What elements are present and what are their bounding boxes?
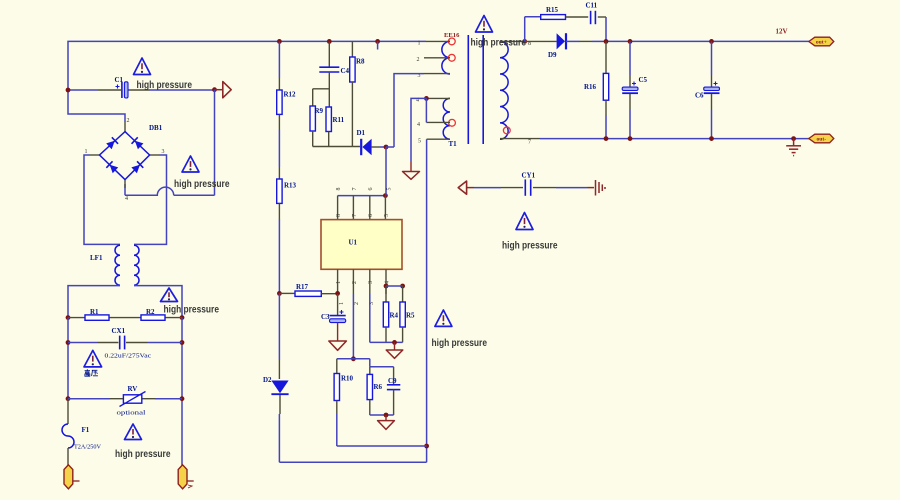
fuse F1 bbox=[67, 399, 69, 424]
wire: R13 to R17 junction bbox=[278, 203, 280, 219]
wire: bridge AC left leg to LF1 bbox=[84, 155, 120, 244]
wire: R9/R11 bottoms to D1 cathode bbox=[313, 131, 353, 147]
wire: pin 1 to C3 bbox=[337, 294, 339, 315]
svg-text:1: 1 bbox=[336, 281, 342, 284]
svg-text:optional: optional bbox=[117, 410, 146, 417]
wire: CY1 to chassis ground bbox=[533, 187, 556, 189]
junction dots on DC+ bus bbox=[277, 39, 282, 44]
resistor R12 bbox=[277, 90, 282, 114]
svg-text:high pressure: high pressure bbox=[115, 449, 171, 460]
svg-text:5: 5 bbox=[384, 214, 390, 217]
svg-text:R6: R6 bbox=[374, 383, 383, 391]
capacitor CX1 row bbox=[66, 340, 71, 345]
wire: LF1 bottom right to AC column bbox=[134, 286, 182, 318]
wire: out+ rail bbox=[606, 40, 809, 42]
wire: R12 to R13 bbox=[278, 114, 280, 130]
svg-text:6: 6 bbox=[368, 214, 374, 217]
capacitor C9 bbox=[393, 367, 395, 385]
U1 pin stubs top bbox=[337, 196, 339, 220]
warning triangle (mid lower) bbox=[435, 310, 452, 326]
svg-text:high pressure: high pressure bbox=[471, 38, 527, 49]
transformer pin 4b bbox=[426, 121, 450, 123]
capacitor C4 bbox=[328, 41, 330, 67]
wire: pin 4 to ground bbox=[411, 98, 426, 162]
resistor R2 bbox=[141, 315, 165, 320]
svg-text:C11: C11 bbox=[586, 2, 598, 10]
transformer T1 primary winding (pins 1-3) bbox=[442, 41, 450, 74]
wire: top pin rail of U1 (pins 8,7,6,5) bbox=[338, 195, 386, 197]
transformer pin 3 bbox=[424, 73, 450, 75]
transformer T1 core bbox=[467, 35, 469, 144]
svg-text:C5: C5 bbox=[639, 76, 648, 84]
svg-text:R9: R9 bbox=[315, 107, 324, 115]
transformer polarity dots bbox=[448, 38, 455, 45]
svg-text:1: 1 bbox=[418, 41, 421, 47]
wire: R4/R5 bottom rail bbox=[386, 327, 403, 342]
warning triangle (right of U1) bbox=[516, 213, 533, 230]
svg-text:5: 5 bbox=[418, 139, 421, 145]
transformer pin 8 bbox=[500, 40, 526, 42]
svg-text:8: 8 bbox=[336, 188, 342, 191]
svg-text:high pressure: high pressure bbox=[174, 179, 230, 190]
warning triangle (above transformer) bbox=[476, 16, 493, 33]
svg-text:C6: C6 bbox=[695, 92, 704, 100]
svg-text:out-: out- bbox=[816, 137, 826, 143]
connector: AC input right bbox=[178, 465, 187, 489]
wire: pin 4 to R4/R5 top rail bbox=[384, 284, 389, 289]
resistor R17 bbox=[279, 292, 295, 294]
svg-text:D9: D9 bbox=[548, 51, 557, 59]
warning triangle (near bridge) bbox=[182, 156, 199, 172]
common-mode choke LF1 bbox=[115, 245, 120, 285]
wire: C1 row (DC+ to C1 to DC- port) bbox=[68, 89, 98, 91]
wire: DC+ bus from bridge positive to transformer pin 1 bbox=[68, 41, 426, 122]
svg-text:R5: R5 bbox=[406, 312, 415, 320]
capacitor C5 (electrolytic) bbox=[629, 41, 631, 75]
diode D2 bbox=[271, 381, 288, 394]
junction at R17 left bbox=[277, 291, 282, 296]
earth ground at out- bbox=[786, 139, 801, 156]
resistor R8 bbox=[351, 41, 353, 57]
transformer pin 7 bbox=[500, 138, 540, 140]
svg-text:2: 2 bbox=[354, 302, 360, 305]
transformer T1 auxiliary winding (pins 4-5) bbox=[443, 98, 450, 139]
svg-text:R1: R1 bbox=[90, 308, 99, 316]
wire: D2 cathode to bottom loop bbox=[279, 395, 281, 414]
svg-text:4: 4 bbox=[417, 122, 420, 128]
wire: LF1 bottom left to AC column bbox=[68, 286, 120, 318]
svg-text:7: 7 bbox=[352, 214, 358, 217]
svg-text:RV: RV bbox=[128, 385, 138, 393]
wire: D1 anode to pin-5 net junction bbox=[372, 146, 380, 148]
ground (under R6/C9) bbox=[385, 415, 387, 421]
svg-text:high pressure: high pressure bbox=[164, 305, 220, 316]
transformer pin 5 bbox=[427, 138, 450, 140]
capacitor C11 bbox=[590, 11, 592, 24]
svg-text:R15: R15 bbox=[546, 6, 559, 14]
svg-text:T2A/250V: T2A/250V bbox=[74, 444, 101, 451]
svg-text:8: 8 bbox=[336, 214, 342, 217]
svg-text:2: 2 bbox=[417, 57, 420, 63]
svg-text:out+: out+ bbox=[816, 40, 827, 46]
svg-text:T1: T1 bbox=[449, 140, 458, 148]
chassis ground (CY1) bbox=[588, 180, 606, 196]
warning triangle (near R2) bbox=[161, 288, 178, 302]
svg-text:1: 1 bbox=[85, 149, 88, 155]
svg-text:CY1: CY1 bbox=[522, 172, 536, 180]
svg-text:D2: D2 bbox=[263, 376, 272, 384]
svg-text:high pressure: high pressure bbox=[502, 241, 558, 252]
op-amp U1 (controller IC) bbox=[321, 220, 402, 270]
svg-text:R2: R2 bbox=[146, 308, 155, 316]
wire: junction drop to pin rail bbox=[385, 147, 387, 196]
wire: pin 3 to D1 junction bbox=[386, 74, 424, 147]
node stub on DC+ bus bbox=[375, 39, 380, 44]
svg-text:2: 2 bbox=[127, 118, 130, 124]
capacitor C6 (electrolytic) bbox=[711, 41, 713, 75]
varistor RV row bbox=[66, 396, 71, 401]
wire: pin 5 long drop to bottom loop bbox=[426, 139, 428, 446]
transformer pin 2 (nc) bbox=[424, 57, 450, 59]
capacitor C3 (electrolytic) bbox=[330, 315, 346, 317]
resistor R4 bbox=[385, 286, 387, 302]
resistor R5 bbox=[402, 286, 404, 302]
wire: C11 to D9 cathode node bbox=[598, 16, 606, 18]
svg-text:R16: R16 bbox=[584, 83, 597, 91]
bridge rectifier DB1 bbox=[124, 122, 126, 132]
svg-text:3: 3 bbox=[368, 281, 374, 284]
svg-text:high pressure: high pressure bbox=[137, 80, 193, 91]
warning triangle (Chinese) bbox=[84, 350, 102, 367]
svg-text:5: 5 bbox=[387, 188, 393, 191]
svg-text:LF1: LF1 bbox=[90, 254, 103, 262]
wire: right AC column bbox=[181, 318, 183, 465]
svg-text:R13: R13 bbox=[284, 182, 297, 190]
wire+resistor row R1 R2 bbox=[66, 315, 71, 320]
transformer T1 secondary winding (pins 8-7) bbox=[500, 41, 508, 139]
svg-text:7: 7 bbox=[528, 140, 531, 146]
svg-text:U1: U1 bbox=[349, 239, 358, 247]
wire: out- rail bbox=[540, 138, 809, 140]
wire: R6/C9 bottom rail to ground bbox=[370, 390, 394, 415]
warning triangle (high pressure, near C1) bbox=[134, 58, 151, 75]
diode D1 bbox=[360, 139, 362, 155]
wire: pin 2 down to R10 row bbox=[352, 294, 354, 359]
svg-text:CX1: CX1 bbox=[112, 327, 126, 335]
ground (transformer pin 4) bbox=[410, 162, 412, 172]
svg-text:2: 2 bbox=[352, 281, 358, 284]
connector: out- bbox=[809, 134, 834, 143]
svg-text:high pressure: high pressure bbox=[432, 338, 488, 349]
resistor R1 bbox=[85, 315, 109, 320]
svg-text:7: 7 bbox=[352, 188, 358, 191]
svg-text:C1: C1 bbox=[115, 76, 124, 84]
U1 pin stubs bottom bbox=[337, 269, 339, 294]
svg-text:EE16: EE16 bbox=[444, 32, 460, 39]
svg-text:12V: 12V bbox=[776, 28, 788, 36]
svg-text:R12: R12 bbox=[284, 91, 297, 99]
svg-text:1: 1 bbox=[339, 302, 345, 305]
svg-text:4: 4 bbox=[384, 281, 390, 284]
resistor R11 bbox=[326, 107, 331, 132]
wire: R12 top lead bbox=[278, 41, 280, 78]
svg-text:C4: C4 bbox=[341, 67, 350, 75]
svg-text:3: 3 bbox=[162, 149, 165, 155]
junction: pin1 / R17 / C3 bbox=[335, 291, 340, 296]
resistor R16 bbox=[605, 41, 607, 73]
svg-text:C9: C9 bbox=[388, 377, 397, 385]
resistor R6 bbox=[369, 367, 371, 375]
resistor R13 bbox=[277, 179, 282, 203]
svg-text:R8: R8 bbox=[356, 58, 365, 66]
wire: C4 bottom to R9/R11 tops bbox=[328, 72, 330, 107]
svg-text:0.22uF/275Vac: 0.22uF/275Vac bbox=[105, 353, 152, 360]
svg-text:F1: F1 bbox=[82, 426, 90, 434]
wire: junction down to D2 bbox=[278, 293, 280, 360]
svg-text:6: 6 bbox=[368, 188, 374, 191]
svg-text:R4: R4 bbox=[390, 312, 399, 320]
transformer pin 1 bbox=[426, 40, 450, 42]
wire: R10 top row bbox=[337, 359, 394, 367]
wire: D9 cathode to out+ rail bbox=[566, 40, 580, 42]
ground (under R4/R5) bbox=[394, 342, 396, 350]
ground (under C3) bbox=[337, 323, 339, 341]
warning triangle (near fuse) bbox=[125, 424, 142, 440]
svg-text:4: 4 bbox=[125, 196, 128, 202]
wire: pin 3 down to R4/R5 bottom rail bbox=[369, 294, 371, 342]
capacitor C1 (bulk electrolytic) bbox=[121, 82, 123, 98]
resistor R15 bbox=[541, 15, 566, 20]
resistor R9 bbox=[310, 106, 315, 131]
connector: AC input left bbox=[64, 465, 73, 489]
wire: bridge AC right leg to LF1 bbox=[134, 155, 167, 244]
diode D9 bbox=[557, 33, 565, 49]
svg-text:D1: D1 bbox=[357, 129, 366, 137]
port: DC- right-pointing triangle bbox=[212, 87, 217, 92]
resistor R10 bbox=[336, 359, 338, 374]
wire: D9 anode bbox=[525, 40, 557, 42]
text: Chinese high voltage (vector strokes) bbox=[85, 369, 98, 376]
svg-text:C3: C3 bbox=[321, 313, 330, 321]
wire: port to CY1 bbox=[474, 187, 501, 189]
wire: left AC column bbox=[67, 318, 69, 399]
svg-text:R10: R10 bbox=[341, 375, 354, 383]
varistor RV bbox=[123, 395, 141, 403]
port: left-pointing triangle (primary DC-) bbox=[458, 181, 466, 194]
transformer pin 4 bbox=[426, 97, 450, 99]
connector: out+ bbox=[809, 37, 834, 46]
svg-text:R17: R17 bbox=[296, 283, 309, 291]
wire: pin 8 riser to snubber R15/C11 bbox=[525, 17, 541, 42]
svg-text:DB1: DB1 bbox=[149, 124, 163, 132]
capacitor CY1 bbox=[524, 179, 526, 195]
wire: R10 bottom to bottom loop bbox=[336, 401, 338, 415]
wire: DC- net from bridge bottom to C1 right with wire hop bbox=[214, 90, 216, 196]
svg-text:R11: R11 bbox=[333, 116, 345, 124]
wire: R15 to C11 bbox=[566, 16, 589, 18]
